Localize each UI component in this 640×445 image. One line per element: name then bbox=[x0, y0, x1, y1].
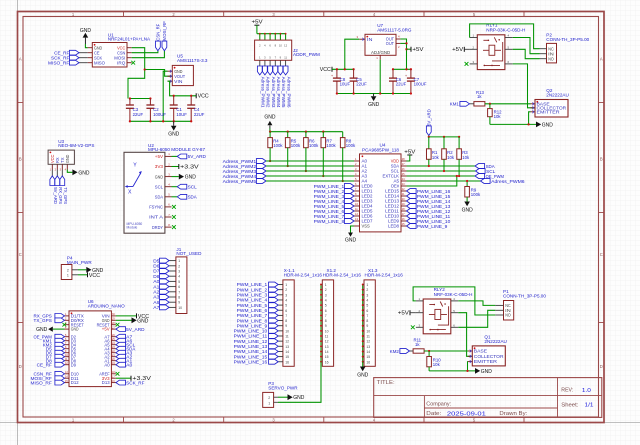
power flag VCC left of C8 bbox=[331, 67, 333, 72]
net flag PWM_LINE_6 bbox=[269, 308, 279, 313]
svg-text:Date:: Date: bbox=[426, 411, 441, 417]
svg-text:+3.3V: +3.3V bbox=[180, 164, 199, 170]
svg-text:9: 9 bbox=[178, 301, 180, 305]
svg-text:2: 2 bbox=[178, 264, 180, 268]
power flag +3.3V at U6 3V3 bbox=[116, 377, 131, 379]
no-connect RLY2 pin3 bbox=[411, 325, 415, 329]
wire U7 IN from VCC bbox=[345, 39, 359, 69]
net flag A3 bbox=[160, 295, 170, 300]
svg-text:SDA: SDA bbox=[155, 195, 163, 200]
svg-text:FSYNC: FSYNC bbox=[149, 205, 163, 210]
svg-text:NEO-6M-V2-GPS: NEO-6M-V2-GPS bbox=[58, 143, 94, 148]
svg-text:PWM_LINE_9: PWM_LINE_9 bbox=[417, 224, 448, 229]
wire U7 ADJ down bbox=[379, 60, 381, 94]
svg-text:7: 7 bbox=[285, 314, 287, 318]
svg-text:+5V: +5V bbox=[252, 20, 264, 26]
svg-text:MISO: MISO bbox=[94, 60, 106, 65]
net flag PWM_LINE_12 bbox=[407, 209, 417, 214]
svg-text:10: 10 bbox=[325, 329, 329, 333]
wire +5V bus to C6 C7 bbox=[393, 68, 411, 70]
svg-text:B: B bbox=[19, 157, 22, 162]
net flag OE_PWM bbox=[475, 174, 485, 179]
svg-text:10k: 10k bbox=[494, 114, 502, 119]
wire SDA row bbox=[407, 165, 476, 167]
svg-text:10UF: 10UF bbox=[340, 82, 351, 87]
net flag PWM_LINE_15 bbox=[407, 194, 417, 199]
svg-text:11: 11 bbox=[325, 335, 329, 339]
svg-text:BASE: BASE bbox=[474, 349, 487, 354]
svg-text:NOT_USED: NOT_USED bbox=[176, 251, 202, 256]
net flag PWM_LINE_15 bbox=[269, 354, 279, 359]
svg-text:EMITTER: EMITTER bbox=[474, 359, 497, 364]
net flag KM1 bbox=[470, 103, 474, 105]
svg-text:+5V: +5V bbox=[102, 327, 110, 332]
svg-text:Adress_PWM5: Adress_PWM5 bbox=[281, 77, 286, 108]
svg-text:10k: 10k bbox=[432, 155, 440, 160]
svg-text:SERVO_PWR: SERVO_PWR bbox=[268, 386, 298, 391]
svg-text:22UF: 22UF bbox=[356, 82, 367, 87]
svg-text:8: 8 bbox=[178, 296, 180, 300]
net flag PWM_LINE_14 bbox=[407, 199, 417, 204]
svg-text:5V_ARD: 5V_ARD bbox=[427, 109, 432, 126]
power flag VCC at U6 VIN bbox=[116, 315, 137, 317]
ground flag P4 pin2 bbox=[86, 267, 91, 273]
wire U7 ground bus bbox=[337, 93, 411, 95]
wire A5 row bbox=[407, 180, 481, 182]
svg-text:Y: Y bbox=[133, 162, 137, 168]
svg-text:5V_ARD: 5V_ARD bbox=[126, 327, 145, 332]
svg-text:+5V: +5V bbox=[412, 47, 424, 53]
wire SCL row bbox=[407, 170, 476, 172]
U4 VSS to ground bbox=[354, 225, 360, 227]
net flag PWM_LINE_10 bbox=[407, 219, 417, 224]
svg-text:5: 5 bbox=[325, 304, 327, 308]
svg-text:GND: GND bbox=[36, 327, 47, 333]
svg-text:NRF24L01+PA+LNA: NRF24L01+PA+LNA bbox=[108, 37, 151, 42]
svg-text:EMITTER: EMITTER bbox=[537, 109, 560, 114]
svg-text:CONN-TH_3P-P5.00: CONN-TH_3P-P5.00 bbox=[503, 294, 546, 299]
wire U1 CSN up to flag bbox=[132, 51, 158, 53]
capacitor C8 bbox=[336, 69, 338, 78]
svg-text:2: 2 bbox=[67, 269, 69, 273]
svg-text:15: 15 bbox=[285, 355, 289, 359]
svg-text:14: 14 bbox=[366, 350, 370, 354]
capacitor C4 bbox=[190, 96, 192, 105]
svg-text:DRDY: DRDY bbox=[152, 225, 163, 230]
resistor R6 bbox=[305, 132, 307, 138]
svg-text:8: 8 bbox=[325, 319, 327, 323]
net flag PWM_LINE_1 bbox=[269, 282, 279, 287]
svg-text:MISO_RF: MISO_RF bbox=[31, 380, 52, 385]
svg-text:VCC: VCC bbox=[89, 273, 100, 279]
svg-text:GND: GND bbox=[71, 327, 79, 332]
svg-text:10k: 10k bbox=[447, 155, 455, 160]
svg-text:100k: 100k bbox=[326, 143, 336, 148]
wire RLY1 pin4 to P2 IN bbox=[513, 38, 540, 54]
power flag VCC P4 pin1 bbox=[87, 272, 89, 277]
wire OE# row bbox=[407, 176, 457, 186]
net flag PWM_LINE_11 bbox=[407, 214, 417, 219]
net flag CE_RF bbox=[79, 52, 88, 54]
title block bbox=[374, 378, 602, 418]
resistor R12 bbox=[489, 104, 491, 109]
net flag SDA (U2 pin5) bbox=[172, 196, 178, 198]
svg-text:1: 1 bbox=[67, 274, 69, 278]
wire RLY1 pin1 to P2 NC bbox=[470, 24, 540, 49]
resistor R7 bbox=[322, 132, 324, 138]
svg-text:SCL: SCL bbox=[155, 184, 164, 189]
svg-text:2N2222AU: 2N2222AU bbox=[546, 93, 568, 98]
svg-text:+5V: +5V bbox=[452, 47, 464, 53]
svg-text:INT A: INT A bbox=[149, 215, 163, 220]
svg-text:22UF: 22UF bbox=[194, 112, 205, 117]
wire J2 top bus bbox=[257, 33, 286, 35]
svg-text:+5V: +5V bbox=[155, 154, 163, 159]
net flag SCL bbox=[116, 342, 126, 347]
svg-text:HDR-M-2.54_1x16: HDR-M-2.54_1x16 bbox=[284, 273, 323, 278]
net flag A0 bbox=[116, 362, 126, 367]
svg-text:6: 6 bbox=[325, 309, 327, 313]
svg-text:KM1: KM1 bbox=[450, 102, 460, 107]
svg-text:3: 3 bbox=[285, 293, 287, 297]
svg-text:KM2: KM2 bbox=[390, 349, 400, 354]
svg-text:2: 2 bbox=[366, 288, 368, 292]
wire U1 MOSI up to flag bbox=[132, 51, 165, 58]
net flag PWM_LINE_10 bbox=[269, 328, 279, 333]
svg-text:2: 2 bbox=[268, 396, 270, 400]
svg-text:2N2222AU: 2N2222AU bbox=[484, 339, 506, 344]
svg-text:Adress_PWM4: Adress_PWM4 bbox=[276, 77, 281, 108]
svg-text:ADJ/GND: ADJ/GND bbox=[371, 50, 390, 55]
svg-text:6: 6 bbox=[285, 309, 287, 313]
svg-text:1: 1 bbox=[285, 283, 287, 287]
net flag A7 bbox=[116, 334, 126, 339]
svg-text:PWM_LINE_16: PWM_LINE_16 bbox=[234, 359, 268, 364]
wire R4-R8 top bus bbox=[270, 131, 343, 133]
net flag D7 bbox=[160, 269, 170, 274]
net flag PWM_LINE_13 bbox=[269, 344, 279, 349]
svg-text:6: 6 bbox=[178, 285, 180, 289]
svg-text:7: 7 bbox=[325, 314, 327, 318]
svg-text:RX_GPS: RX_GPS bbox=[58, 187, 63, 204]
svg-text:22UF: 22UF bbox=[133, 112, 144, 117]
svg-text:+5V: +5V bbox=[398, 311, 410, 317]
svg-text:D13: D13 bbox=[102, 380, 110, 385]
svg-text:COLLECTOR: COLLECTOR bbox=[474, 354, 504, 359]
svg-text:8: 8 bbox=[366, 319, 368, 323]
svg-text:NRP-03K-C-05D-H: NRP-03K-C-05D-H bbox=[486, 28, 525, 33]
wire A2 row bbox=[266, 170, 354, 172]
net flag PWM_LINE_7 bbox=[269, 313, 279, 318]
capacitor C6 bbox=[392, 69, 394, 78]
svg-text:CSN_RF: CSN_RF bbox=[156, 23, 161, 40]
wire Q1 emitter ground bbox=[429, 370, 475, 372]
svg-text:10: 10 bbox=[285, 329, 289, 333]
net flag PWM_LINE_4 bbox=[269, 298, 279, 303]
J2 bottom pins + Adress_PWM flags bbox=[259, 60, 261, 66]
svg-text:Adress_PWM6: Adress_PWM6 bbox=[491, 179, 525, 184]
svg-text:IRQ: IRQ bbox=[117, 60, 126, 65]
svg-text:+: + bbox=[331, 74, 333, 78]
svg-text:16: 16 bbox=[366, 360, 370, 364]
svg-text:REV:: REV: bbox=[561, 388, 573, 394]
net flag KM2 bbox=[410, 350, 414, 352]
wire 3.3V rail bbox=[130, 98, 151, 100]
wire Q2 emitter to ground bbox=[490, 123, 536, 125]
svg-text:CONN-TH_3P-P5.00: CONN-TH_3P-P5.00 bbox=[546, 37, 589, 42]
svg-text:MISO_RF: MISO_RF bbox=[48, 60, 69, 65]
capacitor C5 bbox=[353, 69, 355, 78]
power flag VCC bbox=[195, 93, 197, 98]
net flag SCK_RF at U6 D13 bbox=[116, 380, 126, 385]
svg-text:D9: D9 bbox=[71, 362, 77, 367]
ground under X1.3 bbox=[362, 362, 364, 367]
svg-text:5V_ARD: 5V_ARD bbox=[53, 187, 58, 204]
svg-text:12: 12 bbox=[325, 340, 329, 344]
net flag PWM_LINE_16 bbox=[407, 189, 417, 194]
svg-text:10: 10 bbox=[178, 306, 182, 310]
no-connect U6 RESET both + AREF bbox=[62, 323, 66, 327]
wire A0 row bbox=[266, 160, 354, 162]
svg-text:TX_GPS: TX_GPS bbox=[34, 318, 52, 323]
svg-text:100k: 100k bbox=[346, 143, 356, 148]
svg-text:13: 13 bbox=[325, 345, 329, 349]
svg-text:15: 15 bbox=[325, 355, 329, 359]
wire A3 row bbox=[266, 175, 354, 177]
svg-text:AMS1117S-3.3: AMS1117S-3.3 bbox=[177, 58, 208, 63]
net flags 5V_ARD RX_GPS TX_GPS below U3 bbox=[51, 170, 53, 177]
svg-text:C: C bbox=[600, 252, 603, 257]
no-connect RLY1 pin3 bbox=[465, 62, 469, 66]
wire U7 OUT to +5V bbox=[400, 39, 406, 69]
svg-text:1: 1 bbox=[178, 259, 180, 263]
net flag A1 bbox=[160, 284, 170, 289]
svg-text:HDR-M-2.54_1x16: HDR-M-2.54_1x16 bbox=[323, 273, 362, 278]
svg-text:GND: GND bbox=[264, 114, 275, 120]
svg-text:GND: GND bbox=[78, 170, 89, 176]
svg-text:5: 5 bbox=[285, 304, 287, 308]
svg-text:14: 14 bbox=[325, 350, 329, 354]
svg-text:GND: GND bbox=[345, 238, 356, 244]
svg-text:AMS1117-5.0RG: AMS1117-5.0RG bbox=[377, 27, 412, 32]
net flag A7 bbox=[160, 305, 170, 310]
svg-text:1: 1 bbox=[366, 283, 368, 287]
svg-text:VCC: VCC bbox=[198, 94, 209, 100]
svg-text:100UF: 100UF bbox=[414, 82, 427, 87]
svg-text:10k: 10k bbox=[433, 362, 441, 367]
net flag SCL (U2 pin4) bbox=[172, 186, 178, 188]
svg-text:16: 16 bbox=[325, 360, 329, 364]
net flag PWM_LINE_3 bbox=[269, 292, 279, 297]
svg-text:Adress_PWM1: Adress_PWM1 bbox=[261, 77, 266, 108]
ground flag U6 left GND bbox=[53, 328, 65, 330]
svg-text:Sheet:: Sheet: bbox=[561, 402, 578, 408]
net flag A6 bbox=[116, 338, 126, 343]
wire ground bus under caps bbox=[130, 120, 191, 122]
wire U5 VIN to VCC bus bbox=[168, 81, 197, 96]
wire U5 VOUT join bbox=[145, 70, 173, 77]
svg-text:5V_ARD: 5V_ARD bbox=[188, 154, 207, 159]
svg-text:5: 5 bbox=[366, 304, 368, 308]
wire U1 VCC to 3.3V rail bbox=[128, 48, 145, 99]
svg-text:NO: NO bbox=[505, 313, 511, 318]
capacitor C7 bbox=[410, 69, 412, 78]
svg-text:GND: GND bbox=[80, 28, 91, 34]
svg-text:PWM_LINE_8: PWM_LINE_8 bbox=[314, 219, 345, 224]
resistor R10 bbox=[428, 351, 430, 357]
ground Q1 bbox=[475, 368, 480, 374]
ground under R9 bbox=[464, 202, 470, 207]
svg-text:GND: GND bbox=[481, 369, 492, 375]
svg-text:4: 4 bbox=[366, 298, 368, 302]
svg-text:13: 13 bbox=[366, 345, 370, 349]
svg-text:D: D bbox=[19, 364, 22, 369]
svg-text:15: 15 bbox=[366, 355, 370, 359]
wire X1.2 bus bbox=[320, 285, 322, 362]
ground U1 top bbox=[83, 33, 89, 38]
svg-text:1: 1 bbox=[268, 401, 270, 405]
resistor R2 bbox=[443, 137, 445, 149]
svg-text:X: X bbox=[128, 190, 132, 196]
svg-text:HDR-M-2.54_1x16: HDR-M-2.54_1x16 bbox=[365, 273, 404, 278]
ground flag P3 pin2 bbox=[288, 394, 293, 400]
svg-text:GND: GND bbox=[65, 155, 70, 163]
svg-text:A0: A0 bbox=[126, 363, 133, 368]
wire RLY2 pin5 to Q1 collector bbox=[458, 313, 472, 357]
svg-text:1.0: 1.0 bbox=[582, 388, 591, 394]
net flag A3 bbox=[116, 350, 126, 355]
svg-text:2: 2 bbox=[285, 288, 287, 292]
resistor R8 bbox=[342, 132, 344, 138]
ground flag (U2 pin3) bbox=[172, 176, 179, 178]
svg-text:A: A bbox=[19, 57, 22, 62]
svg-text:7: 7 bbox=[178, 290, 180, 294]
net flag A6 bbox=[160, 300, 170, 305]
svg-text:GND: GND bbox=[293, 395, 304, 401]
wire A1 row bbox=[266, 165, 354, 167]
svg-text:B: B bbox=[600, 157, 603, 162]
wire A4 row bbox=[266, 180, 354, 182]
wire U5 GND to ground bus bbox=[163, 71, 167, 121]
svg-text:GND: GND bbox=[155, 174, 163, 179]
svg-text:7: 7 bbox=[366, 314, 368, 318]
net flag 5V_ARD at U6 +5V bbox=[116, 327, 126, 332]
ground under caps bbox=[173, 121, 175, 126]
svg-text:10: 10 bbox=[366, 329, 370, 333]
net flag CSN_RF vertical bbox=[156, 41, 161, 51]
svg-text:1/1: 1/1 bbox=[585, 403, 594, 409]
svg-text:3: 3 bbox=[178, 270, 180, 274]
svg-text:1: 1 bbox=[325, 283, 327, 287]
svg-text:C: C bbox=[19, 252, 22, 257]
svg-text:11: 11 bbox=[285, 335, 289, 339]
svg-text:4: 4 bbox=[325, 298, 327, 302]
svg-text:OUT: OUT bbox=[386, 41, 394, 46]
net flag PWM_LINE_12 bbox=[269, 339, 279, 344]
svg-text:SDA: SDA bbox=[188, 195, 198, 200]
wire RLY1 pin5 to P2 NO bbox=[513, 49, 540, 58]
net flag MISO_RF bbox=[79, 62, 88, 64]
wire VCC bus to C8 C5 bbox=[332, 68, 354, 70]
wire 5V bus over R1R2R3 bbox=[429, 136, 459, 138]
svg-text:100k: 100k bbox=[471, 192, 481, 197]
svg-text:GND: GND bbox=[137, 318, 148, 324]
svg-text:CE_RF: CE_RF bbox=[37, 362, 52, 367]
svg-text:2025-09-01: 2025-09-01 bbox=[447, 411, 486, 417]
capacitor C1 bbox=[173, 96, 175, 105]
net flag MOSI_RF vertical bbox=[162, 41, 167, 51]
net flag PWM_LINE_13 bbox=[407, 204, 417, 209]
svg-text:VIN: VIN bbox=[174, 79, 182, 84]
svg-text:3V3: 3V3 bbox=[155, 164, 164, 169]
svg-text:2: 2 bbox=[325, 288, 327, 292]
net flag PWM_LINE_11 bbox=[269, 334, 279, 339]
capacitor C3 bbox=[129, 99, 131, 106]
svg-text:9: 9 bbox=[325, 324, 327, 328]
svg-text:Adress_PWM3: Adress_PWM3 bbox=[271, 77, 276, 108]
connector J2 ADDR_PWM bbox=[255, 40, 292, 60]
wire RLY2 pin1 to P1 NO bbox=[413, 287, 495, 315]
resistor R9 bbox=[466, 181, 468, 187]
capacitor C2 bbox=[149, 99, 151, 106]
svg-text:VSS: VSS bbox=[362, 224, 370, 229]
net flag D6 bbox=[160, 263, 170, 268]
net flag SDA bbox=[475, 164, 485, 169]
svg-text:GND: GND bbox=[542, 122, 553, 128]
svg-text:4: 4 bbox=[178, 275, 180, 279]
svg-text:SCK_RF: SCK_RF bbox=[126, 380, 144, 385]
net flag A1 bbox=[116, 358, 126, 363]
svg-text:NO: NO bbox=[548, 56, 554, 61]
svg-text:A: A bbox=[600, 57, 603, 62]
ground Q2 bbox=[536, 122, 541, 128]
wire EXTCLK row bbox=[407, 175, 476, 177]
svg-text:22UF: 22UF bbox=[396, 82, 407, 87]
wire X1.2 to P3 pin1 bbox=[278, 362, 321, 403]
net flag Adress_PWM6 bbox=[481, 179, 491, 184]
svg-text:SCL: SCL bbox=[188, 185, 198, 190]
net flag A0 bbox=[160, 279, 170, 284]
svg-text:3: 3 bbox=[366, 293, 368, 297]
net flag PWM_LINE_5 bbox=[269, 303, 279, 308]
svg-text:A0: A0 bbox=[104, 362, 110, 367]
net flag PWM_LINE_2 bbox=[269, 287, 279, 292]
svg-text:MOSI_RF: MOSI_RF bbox=[162, 21, 167, 41]
sheet edge gray lines bbox=[17, 0, 19, 445]
svg-text:10UF: 10UF bbox=[176, 112, 187, 117]
net flag SDA bbox=[116, 346, 126, 351]
wire RLY1 pin6 to Q2 collector bbox=[513, 64, 535, 108]
svg-text:Company:: Company: bbox=[426, 401, 451, 407]
net flag D8 bbox=[160, 274, 170, 279]
svg-text:Adress_PWM6: Adress_PWM6 bbox=[286, 77, 291, 108]
svg-text:11: 11 bbox=[366, 335, 370, 339]
net flag PWM_LINE_9 bbox=[407, 224, 417, 229]
net flag 5V_ARD (U2 pin1) bbox=[172, 155, 178, 157]
power flag +5V at U7 bbox=[407, 48, 412, 50]
svg-text:3: 3 bbox=[325, 293, 327, 297]
svg-text:ARDUINO_NANO: ARDUINO_NANO bbox=[88, 304, 125, 309]
no-connect U2 FSYNC INT DRDY bbox=[172, 205, 176, 209]
svg-text:GND: GND bbox=[462, 207, 473, 213]
svg-text:9: 9 bbox=[366, 324, 368, 328]
svg-text:12: 12 bbox=[285, 340, 289, 344]
svg-text:8: 8 bbox=[285, 319, 287, 323]
svg-text:PCA9685PW_118: PCA9685PW_118 bbox=[362, 148, 399, 153]
svg-text:14: 14 bbox=[285, 350, 289, 354]
svg-text:VCC: VCC bbox=[320, 67, 331, 73]
svg-text:A7: A7 bbox=[153, 305, 160, 310]
